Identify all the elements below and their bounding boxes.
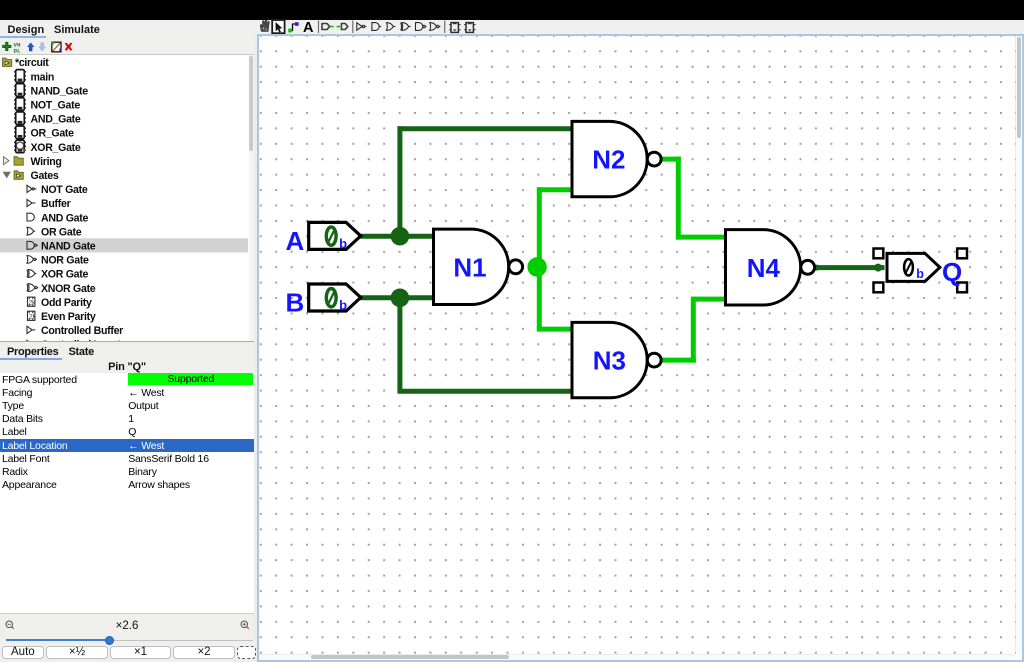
wire A branch vertical (397, 126, 402, 238)
svg-text:Buffer: Buffer (41, 198, 71, 210)
svg-text:N1: N1 (453, 252, 486, 282)
svg-text:b: b (916, 266, 924, 280)
svg-text:N2: N2 (592, 144, 625, 174)
svg-text:Controlled Buffer: Controlled Buffer (41, 325, 123, 337)
svg-text:B: B (285, 287, 304, 317)
svg-text:Gates: Gates (31, 170, 59, 182)
nand gate N1 (433, 229, 522, 304)
svg-text:OR_Gate: OR_Gate (31, 127, 75, 139)
grid dots (259, 36, 1016, 654)
svg-text:AND Gate: AND Gate (41, 212, 88, 224)
svg-text:Even Parity: Even Parity (41, 311, 96, 323)
nand gate N2 (572, 121, 661, 196)
wire B to N1 (359, 295, 435, 300)
svg-text:XOR_Gate: XOR_Gate (31, 141, 81, 153)
svg-text:NOT Gate: NOT Gate (41, 184, 88, 196)
junction N1 output (527, 257, 546, 276)
input pin A (308, 222, 360, 251)
svg-text:Odd Parity: Odd Parity (41, 296, 92, 308)
svg-text:NOR Gate: NOR Gate (41, 254, 89, 266)
svg-text:AND_Gate: AND_Gate (31, 113, 81, 125)
svg-text:b: b (339, 297, 347, 312)
selection handles pin Q (873, 248, 966, 292)
svg-text:A: A (285, 225, 304, 255)
svg-text:Wiring: Wiring (31, 155, 62, 167)
wire top horizontal to N2 input (397, 126, 573, 131)
label B (285, 287, 304, 317)
nand gate N4 (725, 229, 814, 304)
svg-text:XOR Gate: XOR Gate (41, 268, 88, 280)
svg-text:Q: Q (941, 256, 961, 286)
svg-text:2k: 2k (29, 313, 36, 320)
svg-text:NAND_Gate: NAND_Gate (31, 85, 89, 97)
svg-text:2k: 2k (29, 299, 36, 306)
wire N3 output (661, 296, 725, 362)
label A (285, 225, 304, 255)
wire N1 output vertical (536, 187, 541, 331)
label Q (941, 256, 961, 286)
svg-text:N3: N3 (592, 345, 625, 375)
input pin B (308, 283, 360, 312)
wire to N3 upper input (536, 326, 573, 331)
svg-text:NAND Gate: NAND Gate (41, 240, 96, 252)
svg-text:b: b (339, 236, 347, 251)
output pin Q (886, 253, 939, 281)
junction node B (390, 288, 409, 307)
svg-text:main: main (31, 71, 55, 83)
svg-text:XNOR Gate: XNOR Gate (41, 282, 96, 294)
svg-text:NOT_Gate: NOT_Gate (31, 99, 81, 111)
junction node A (390, 226, 409, 245)
svg-text:OR Gate: OR Gate (41, 226, 82, 238)
svg-text:*circuit: *circuit (15, 57, 49, 69)
wire B branch vertical (397, 295, 402, 393)
wire N2 output (661, 156, 725, 239)
wire to N2 lower input (536, 187, 573, 192)
wire A to N1 (359, 233, 435, 238)
svg-text:N4: N4 (746, 252, 780, 282)
wire N4 output to pin Q (813, 263, 883, 271)
wire bottom horizontal to N3 input (397, 388, 573, 393)
svg-text:DL: DL (14, 47, 21, 54)
nand gate N3 (572, 322, 661, 397)
